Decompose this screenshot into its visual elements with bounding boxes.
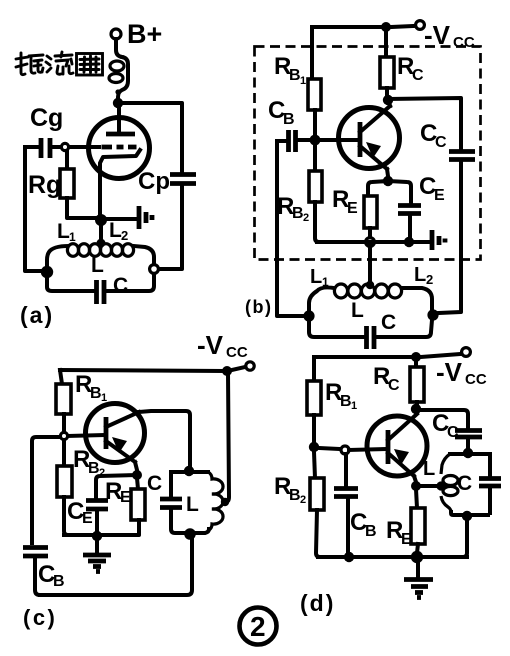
wire tank left side (b) (309, 287, 334, 311)
capacitor Cp (170, 175, 196, 184)
wire L tap to Vcc rail (c) (225, 373, 229, 502)
wire collector to tank (c) (139, 411, 190, 466)
resistor RC (d) (410, 357, 424, 406)
wire tank left down to C (47, 272, 93, 291)
svg-text:E: E (401, 531, 412, 548)
svg-text:2: 2 (121, 228, 128, 243)
svg-text:E: E (347, 200, 358, 217)
inductor L tank (d, two-petal coil) (441, 454, 458, 512)
capacitor CB (c) (23, 548, 48, 596)
svg-text:L: L (414, 264, 426, 286)
resistor RE (d) (411, 489, 425, 553)
wire Vcc rail (c) (60, 370, 223, 371)
wire tank left branch to C (c) (169, 472, 173, 497)
svg-text:B: B (289, 67, 301, 84)
svg-text:B: B (340, 393, 352, 410)
svg-text:Cp: Cp (138, 168, 170, 195)
wire tank bottom left to C (309, 316, 363, 337)
transistor V4 (d) (367, 414, 427, 476)
wire Vcc node to terminal (391, 26, 414, 27)
svg-text:CC: CC (226, 344, 248, 361)
capacitor CC (d) (455, 431, 482, 438)
junction tank left (41, 266, 53, 278)
capacitor Cg (25, 138, 61, 158)
svg-text:C: C (147, 472, 162, 495)
wire tank top side (c) (171, 470, 208, 474)
wire emitter node to L tap (d) (421, 484, 438, 488)
svg-text:B: B (283, 111, 295, 128)
ground (d) (404, 557, 433, 598)
tube grid lead to terminal (70, 145, 99, 149)
wire Vcc rail (b) (312, 25, 386, 29)
svg-text:B+: B+ (127, 19, 162, 49)
node base terminal (c) (60, 432, 67, 439)
junction base node (b) (310, 135, 321, 146)
svg-text:2: 2 (303, 212, 309, 224)
resistor RB1 (d) (307, 381, 321, 415)
junction tank top node (c) (184, 466, 194, 476)
wire tank right up to coil (402, 288, 432, 310)
junction RE ground node (d) (411, 551, 423, 563)
junction L tap node (c) (221, 498, 229, 506)
node coil tap (b) (366, 281, 374, 289)
wire tap to coil (99, 220, 103, 240)
wire CE to ground rail (408, 215, 412, 239)
label 扼流圈 (choke) (16, 52, 73, 75)
resistor RB1 (b) (308, 79, 321, 110)
wire CE to ground node (c) (95, 511, 99, 535)
tube grid (dashed) (102, 145, 137, 150)
wire ground rail (b) (317, 240, 429, 244)
junction base node (d) (309, 442, 319, 452)
wire rail to RB1 (c) (60, 370, 62, 384)
wire RB1 to base node (d) (312, 415, 316, 443)
svg-text:C: C (412, 67, 424, 84)
node emitter tap terminal (366, 238, 375, 247)
junction L tap node (d) (436, 481, 445, 490)
choke coil RFC (扼流圈) (109, 57, 128, 97)
node coil tap (97, 239, 106, 248)
junction collector node (b) (383, 95, 393, 105)
resistor RE (c) (101, 478, 145, 535)
resistor RB2 (b) (309, 144, 322, 242)
svg-text:-V: -V (197, 330, 224, 360)
svg-text:2: 2 (426, 272, 433, 287)
resistor RE (b) (364, 196, 377, 228)
capacitor C tank (b) (367, 326, 375, 349)
capacitor C tank (c) (160, 499, 182, 508)
wire tank bottom side (d) (451, 512, 488, 515)
wire emitter node to CE (c) (96, 475, 137, 498)
tube plate (117, 103, 121, 133)
svg-text:-V: -V (424, 20, 451, 50)
wire bottom rail (c) (40, 539, 192, 595)
svg-text:E: E (82, 510, 93, 527)
wire base node to CB terminal (319, 448, 340, 449)
svg-text:2: 2 (250, 611, 266, 642)
wire C to tank bottom (c) (171, 509, 186, 533)
wire rail to RB1 (d) (312, 357, 316, 381)
junction Vcc node (c) (222, 366, 232, 376)
junction tank left (b) (303, 310, 314, 321)
svg-text:L: L (91, 254, 104, 277)
junction emitter node (d) (411, 481, 421, 491)
svg-text:B: B (365, 523, 377, 540)
wire left rail of (a) (25, 147, 42, 271)
svg-text:B: B (53, 573, 65, 590)
svg-text:C: C (381, 311, 396, 334)
wire RE to tap node (368, 228, 372, 238)
resistor RB2 (d) (310, 452, 324, 557)
vacuum tube V1 envelope (89, 118, 150, 179)
wire tank bottom to rail (d) (463, 518, 467, 557)
wire C to tank right side (107, 274, 154, 291)
svg-text:2: 2 (300, 494, 306, 506)
svg-text:L: L (186, 493, 199, 516)
svg-text:-V: -V (436, 357, 463, 387)
svg-text:B: B (292, 205, 304, 222)
wire Vcc rail (d) (314, 355, 412, 359)
resistor Rg (60, 151, 96, 218)
svg-text:CC: CC (465, 371, 487, 388)
wire CC to tank top (d) (466, 439, 470, 449)
svg-text:C: C (457, 472, 472, 495)
svg-text:Cg: Cg (30, 104, 63, 132)
node -Vcc terminal (b) (416, 21, 425, 30)
wire tank left side (47, 246, 67, 267)
wire tank bottom right (377, 320, 432, 337)
capacitor C (tank) (97, 280, 105, 304)
junction Vcc node (d) (411, 352, 421, 362)
wire cathode node to ground (106, 217, 136, 221)
svg-text:1: 1 (300, 75, 306, 87)
capacitor CB (d) (334, 454, 358, 553)
wire rail to RB1 (310, 27, 314, 79)
inductor L tank coil (b, 5 turns) (334, 284, 401, 298)
wire tank bottom right (c) (194, 529, 209, 533)
junction cathode node (95, 214, 107, 226)
wire emitter to node (d) (414, 476, 416, 482)
svg-text:CC: CC (453, 34, 475, 51)
label 圈 (enclosure) (77, 54, 103, 76)
wire CB terminal to transistor (d) (349, 449, 385, 450)
svg-text:(d): (d) (300, 590, 335, 616)
junction ground node (c) (92, 531, 102, 541)
svg-text:L: L (310, 266, 322, 288)
wire plate node to right rail (118, 103, 182, 172)
svg-text:L: L (423, 458, 435, 480)
junction tank right (b) (427, 309, 438, 320)
junction CE ground node (404, 237, 414, 247)
junction tank bottom node (c) (184, 528, 196, 540)
svg-text:C: C (113, 274, 128, 297)
junction emitter node (b) (383, 176, 393, 186)
wire tank top side (d) (450, 452, 488, 456)
capacitor CE (b) (398, 206, 421, 214)
wire ground rail (c) (64, 533, 93, 537)
wire cathode to junction (98, 175, 102, 218)
transistor V2 (b) (339, 106, 400, 169)
svg-text:B: B (90, 385, 102, 402)
resistor RC (b) (380, 27, 394, 98)
svg-text:L: L (351, 299, 364, 322)
svg-text:E: E (434, 187, 445, 204)
inductor L (c, vertical 3 turns) (208, 472, 223, 530)
svg-text:1: 1 (69, 230, 76, 244)
wire CB left rail down to tank (277, 141, 304, 316)
svg-text:C: C (388, 377, 400, 394)
resistor RB1 (c) (56, 384, 71, 414)
junction Vcc node (b) (381, 22, 391, 32)
resistor RB2 (c) (57, 440, 72, 535)
dashed amplifier box (255, 47, 481, 260)
inductor L (tank coil, 6 turns) (67, 244, 133, 257)
tube cathode (100, 150, 140, 175)
junction tank bottom node (d) (462, 511, 472, 521)
junction emitter node (c) (132, 470, 142, 480)
ground (b emitter, right-facing) (432, 230, 445, 250)
svg-text:(a): (a) (20, 302, 54, 328)
svg-text:1: 1 (101, 392, 107, 404)
ground (c) (83, 536, 111, 572)
figure number 2 (circled) (240, 608, 277, 645)
svg-text:Rg: Rg (28, 171, 61, 199)
wire CC down to tank right (438, 161, 461, 313)
wire ground rail (d) (318, 555, 467, 559)
wire tank right up to coil (134, 246, 154, 264)
wire Vcc node to terminal (232, 367, 245, 370)
svg-text:C: C (447, 424, 459, 441)
junction collector node (d) (411, 404, 421, 414)
wire base node left to CB rail (32, 437, 60, 543)
junction plate node (113, 98, 123, 108)
node CB top terminal (d) (341, 446, 349, 454)
node tank right terminal (150, 265, 159, 274)
node -Vcc terminal (c) (246, 362, 254, 370)
wire emitter node to CE (388, 181, 411, 203)
capacitor CC (b) (449, 152, 475, 160)
wire collector node to CC (d) (416, 410, 468, 428)
capacitor C tank (d) (479, 454, 501, 513)
capacitor CE (c) (86, 501, 108, 510)
svg-text:C: C (435, 134, 447, 151)
transistor V3 (c) (86, 404, 145, 463)
svg-text:B: B (289, 487, 301, 504)
node B+ terminal (111, 29, 121, 39)
svg-text:1: 1 (351, 400, 357, 412)
svg-text:(c): (c) (23, 605, 57, 630)
wire RB1 to base node (313, 110, 317, 136)
wire collector to node (389, 101, 390, 106)
wire emitter to node (c) (135, 462, 137, 470)
svg-text:E: E (120, 489, 131, 506)
capacitor CB (b) (277, 130, 310, 152)
wire collector node to CC (388, 98, 461, 149)
node -Vcc terminal (d) (462, 348, 471, 357)
wire base node to transistor (320, 138, 357, 142)
wire RB1 to base node (c) (62, 414, 66, 432)
wire tap to tank coil (368, 246, 372, 282)
junction tank top node (d) (463, 448, 473, 458)
wire Vcc node to terminal (d) (421, 354, 460, 357)
wire emitter node to RE (368, 181, 388, 196)
ground (cathode, right-facing) (139, 206, 152, 229)
wire base node to transistor (c) (68, 435, 103, 436)
junction CB ground node (d) (344, 552, 354, 562)
wire tank right to Cp rail (159, 186, 182, 269)
wire emitter to node (387, 169, 388, 176)
svg-text:(b): (b) (245, 297, 272, 317)
node grid terminal (61, 143, 68, 150)
wire B+ to choke (116, 39, 122, 57)
